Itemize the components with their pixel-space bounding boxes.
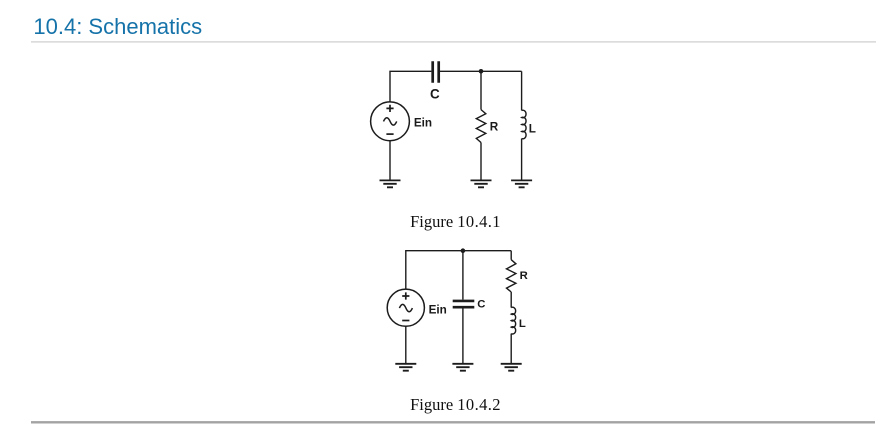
ground (L2) <box>501 364 522 371</box>
svg-text:R: R <box>520 270 528 282</box>
AC source U1 circle <box>371 102 410 141</box>
title underline rule <box>31 41 876 42</box>
resistor R2 <box>507 260 516 292</box>
wire source bottom to ground <box>389 141 391 181</box>
svg-text:Ein: Ein <box>414 116 432 129</box>
svg-text:Figure 10.4.1: Figure 10.4.1 <box>410 212 501 231</box>
source 2 plus sign <box>402 292 409 299</box>
source minus sign <box>386 133 393 135</box>
svg-text:Figure 10.4.2: Figure 10.4.2 <box>410 395 501 414</box>
wire R2 to L2 <box>510 292 512 308</box>
node junction dot 2 <box>461 248 466 253</box>
svg-text:C: C <box>477 299 485 311</box>
wire R1 bottom to ground <box>480 143 482 181</box>
AC source U2 circle <box>387 289 424 326</box>
wire capacitor 2 bottom <box>462 309 464 364</box>
ground (C2) <box>452 364 473 371</box>
source 2 minus sign <box>402 320 409 322</box>
wire R2 top <box>510 251 512 260</box>
svg-text:10.4: Schematics: 10.4: Schematics <box>33 14 202 39</box>
wire L1 top <box>521 71 523 110</box>
wire L1 bottom to ground <box>521 139 523 181</box>
wire source top to capacitor left <box>390 71 431 102</box>
wire capacitor branch top <box>462 251 464 300</box>
svg-text:R: R <box>490 120 499 133</box>
ground (L1) <box>511 180 532 187</box>
bottom page rule <box>31 421 875 423</box>
svg-text:Ein: Ein <box>429 303 447 316</box>
wire source 2 bottom <box>405 326 407 364</box>
svg-text:L: L <box>519 318 526 330</box>
wire capacitor right to L branch <box>440 70 522 72</box>
wire L2 bottom <box>510 334 512 364</box>
wire source top <box>406 251 511 289</box>
inductor L2 <box>511 307 515 334</box>
source sine symbol <box>384 118 397 125</box>
capacitor C1 plates <box>433 61 439 82</box>
node junction dot <box>479 69 484 74</box>
source plus sign <box>386 105 393 112</box>
inductor L1 <box>522 110 526 139</box>
ground (source 2) <box>395 364 416 371</box>
ground (R1) <box>471 180 492 187</box>
svg-text:L: L <box>529 122 536 135</box>
capacitor C2 plates <box>453 301 475 307</box>
resistor R1 <box>476 110 486 143</box>
wire R1 top <box>480 71 482 109</box>
source 2 sine symbol <box>399 304 412 311</box>
ground (source 1) <box>380 180 401 187</box>
svg-text:C: C <box>430 86 440 101</box>
